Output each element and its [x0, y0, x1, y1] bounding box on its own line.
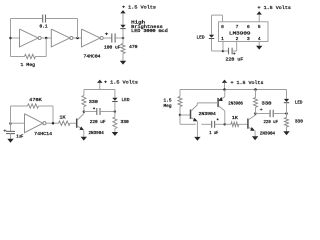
LED D4	[284, 99, 289, 102]
transistor Q1 collector diagonal	[77, 114, 84, 121]
svg-text:+ 1.5 Volts: + 1.5 Volts	[231, 80, 264, 86]
ground C4 Q1 emitter	[194, 137, 200, 141]
svg-text:220 uF: 220 uF	[90, 119, 106, 125]
wire C3 rail corner down to LED	[114, 90, 116, 98]
node C3 collector junction	[83, 110, 86, 113]
wire C1 bottom right segment	[36, 56, 47, 58]
svg-text:470: 470	[129, 44, 138, 50]
wire collector junction to 220uF	[84, 111, 97, 113]
transistor Q2 collector diagonal	[191, 105, 197, 111]
svg-text:1: 1	[221, 36, 224, 42]
wire 220uF to LED column C4	[273, 113, 286, 115]
svg-text:2N3904: 2N3904	[199, 111, 217, 117]
node C2 pin1 junction	[222, 50, 225, 53]
ground C3 LED	[112, 132, 118, 136]
transistor Q4 emitter diagonal	[248, 127, 253, 130]
capacitor 220 uF C3	[96, 108, 98, 115]
svg-text:2N3904: 2N3904	[260, 130, 276, 136]
wire 330 bottom to junction	[255, 107, 257, 113]
wire 1K to Q4 base	[239, 123, 248, 125]
svg-text:*: *	[216, 118, 219, 124]
svg-text:1K: 1K	[60, 115, 66, 121]
svg-text:+ 1.5 Volts: + 1.5 Volts	[258, 5, 292, 11]
node C1 junction A	[45, 37, 48, 40]
wire pin 8 top horizontal	[212, 14, 223, 16]
inverter U3 74HC14	[25, 114, 43, 133]
wire output node to 1K	[225, 123, 231, 125]
transistor Q2 emitter arrow	[193, 118, 198, 122]
svg-text:*: *	[93, 107, 96, 113]
svg-text:8: 8	[221, 24, 224, 30]
svg-text:5: 5	[258, 24, 261, 30]
svg-text:330: 330	[262, 101, 272, 107]
transistor Q2 2N3904 base bar	[190, 110, 192, 120]
wire C3 top rail	[84, 89, 115, 91]
wire LED bottom horizontal to junction	[212, 50, 224, 52]
svg-text:LED: LED	[197, 34, 205, 40]
wire C3 feedback right vertical	[52, 106, 54, 123]
wire inverter3 output	[103, 37, 111, 39]
transistor Q2 emitter diagonal	[191, 117, 196, 120]
wire base node to Q1 base	[180, 114, 191, 116]
svg-text:LED: LED	[295, 99, 303, 105]
svg-text:7: 7	[236, 24, 239, 30]
svg-text:1 Meg: 1 Meg	[21, 62, 36, 68]
op-amp U2 LM3909 IC box	[219, 22, 269, 42]
wire resistor 470 to ground	[122, 54, 124, 61]
node C4 rail 330 junction	[254, 88, 257, 91]
svg-text:330: 330	[89, 99, 98, 105]
wire C4 feedback horizontal left of crossing	[180, 123, 196, 125]
resistor 330 C4 collector	[254, 98, 258, 108]
power +1.5 Volts supply arrow C2	[257, 11, 262, 14]
inverter U1A 74HC04	[20, 29, 39, 47]
inverter U1C 74HC04	[82, 29, 101, 47]
wire pin 1 down	[222, 42, 224, 52]
transistor Q4 2N3904 base bar	[247, 119, 249, 129]
wire C3 feedback top right	[39, 105, 54, 107]
wire 330 to ground C3	[114, 129, 116, 133]
wire pin 8 up	[222, 15, 224, 22]
wire collector junction up to 330	[83, 107, 85, 112]
wire LED D2 cathode down	[211, 39, 213, 51]
power +1.5 Volts supply arrow C4	[222, 80, 227, 83]
LED D2	[209, 35, 214, 38]
transistor Q1 2N3904 base bar	[76, 119, 78, 128]
wire junction to capacitor 220uF	[223, 50, 229, 52]
svg-text:100 uF: 100 uF	[104, 45, 121, 51]
wire inverter U3 output	[46, 122, 59, 124]
svg-text:0.1: 0.1	[40, 24, 48, 30]
svg-text:470K: 470K	[29, 97, 42, 103]
wire C3 input node down to capacitor	[10, 124, 12, 132]
LED D3	[112, 98, 117, 101]
svg-text:Meg: Meg	[164, 103, 172, 109]
capacitor 1uF C3	[6, 130, 15, 132]
wire pin 4 down to ground	[258, 42, 260, 46]
wire 1uF to output node	[215, 123, 225, 125]
node C1 LED column junction	[122, 37, 125, 40]
wire C1 junction A down	[45, 38, 47, 57]
wire 100uF to LED column	[115, 37, 123, 39]
svg-text:220 uF: 220 uF	[264, 119, 279, 125]
node C1 input junction	[9, 37, 12, 40]
node C4 LED column junction	[285, 112, 288, 115]
node C4 output junction	[224, 123, 227, 126]
wire junction down to 330 C4	[286, 114, 288, 118]
resistor 470K	[28, 104, 39, 108]
wire Q4 emitter down	[254, 131, 256, 137]
resistor 1 Meg	[25, 54, 36, 58]
resistor 330 C3 collector	[82, 96, 86, 107]
wire LED D1 cathode down to junction	[122, 29, 124, 38]
wire C4 rail corner down to LED	[286, 90, 288, 99]
wire C1 input to inverter 1	[11, 37, 20, 39]
node C4 Q4 collector junction	[254, 112, 257, 115]
svg-text:2N3906: 2N3906	[228, 100, 243, 106]
svg-text:1 uF: 1 uF	[209, 130, 218, 136]
wire Q2 emitter down crossing	[196, 121, 198, 137]
svg-text:6: 6	[247, 24, 250, 30]
wire base node down	[179, 115, 181, 124]
svg-text:2N3904: 2N3904	[89, 130, 105, 136]
wire junction down to resistor 470	[122, 38, 124, 44]
wire C1 top feedback left segment	[11, 18, 43, 20]
capacitor 220 uF C4	[269, 110, 271, 117]
wire Q3 emitter from rail	[224, 90, 226, 97]
capacitor 1 uF C4	[211, 121, 213, 128]
wire C4 top rail	[180, 89, 287, 91]
ground C3 emitter	[81, 137, 87, 141]
wire C3 feedback top left	[11, 105, 28, 107]
wire 330 top to rail	[83, 90, 85, 96]
svg-text:4: 4	[258, 36, 261, 42]
wire 220uF to LED column	[100, 111, 115, 113]
wire C4 feedback horizontal right of crossing	[201, 123, 211, 125]
svg-text:1.5: 1.5	[164, 98, 172, 104]
resistor 330 C3 LED	[113, 117, 117, 129]
wire 1.5 Meg to base node	[179, 107, 181, 116]
svg-text:LED: LED	[122, 97, 130, 103]
svg-text:3: 3	[247, 36, 250, 42]
transistor Q1 emitter arrow	[80, 126, 84, 130]
capacitor 220 uF C2	[228, 48, 230, 55]
transistor Q4 collector diagonal	[248, 115, 255, 120]
wire C1 top feedback right segment	[46, 18, 78, 20]
ground C1	[120, 61, 126, 65]
svg-text:2: 2	[236, 36, 239, 42]
wire capacitor to pin 2	[232, 50, 237, 52]
resistor 330 C4 LED	[285, 118, 289, 128]
svg-text:330: 330	[295, 119, 303, 125]
wire 330 to ground C4 LED	[286, 127, 288, 131]
node C3 LED column junction	[114, 110, 117, 113]
svg-text:LM3909: LM3909	[229, 30, 251, 36]
ground C2	[256, 46, 262, 50]
wire C1 bottom left segment	[11, 56, 25, 58]
transistor Q3 collector diagonal	[219, 106, 225, 111]
transistor Q3 emitter arrow	[218, 97, 223, 101]
resistor 470	[121, 44, 125, 54]
svg-text:1K: 1K	[232, 115, 238, 121]
wire C1 junction B up to feedback	[77, 19, 79, 39]
ground C4 Q4 emitter	[252, 136, 258, 140]
ground C4 LED	[283, 131, 289, 135]
wire C3 feedback vertical	[10, 106, 12, 124]
wire rail corner down to 1.5 Meg	[179, 90, 181, 97]
node C3 output junction	[52, 122, 55, 125]
wire LED D4 cathode to junction	[286, 103, 288, 114]
transistor Q1 emitter diagonal	[77, 126, 82, 129]
svg-text:+ 1.5 Volts: + 1.5 Volts	[104, 80, 138, 86]
wire LED D2 anode vertical	[211, 15, 213, 35]
LED D1 high brightness	[120, 25, 125, 28]
svg-text:1uF: 1uF	[16, 134, 23, 140]
wire Q4 collector up to junction	[254, 114, 256, 116]
svg-text:+ 1.5 Volts: + 1.5 Volts	[122, 5, 156, 11]
ground C3 input	[7, 139, 13, 143]
svg-text:74HC14: 74HC14	[34, 131, 52, 137]
node C4 Q1 base junction	[179, 114, 182, 117]
wire inverter1 output	[41, 37, 51, 39]
wire Q1 emitter down	[83, 130, 85, 137]
wire C1 left vertical feedback	[10, 19, 12, 57]
wire capacitor 1uF to ground	[10, 134, 12, 139]
resistor 1.5 Meg	[178, 97, 182, 107]
node C3 input junction	[9, 122, 12, 125]
node C1 junction B	[76, 37, 79, 40]
svg-text:220 uF: 220 uF	[226, 57, 244, 63]
wire inverter2 output	[73, 37, 81, 39]
wire junction down to 330	[114, 112, 116, 118]
node C4 rail supply junction	[223, 88, 226, 91]
wire 330 top to rail C4	[255, 90, 257, 98]
svg-text:74HC04: 74HC04	[84, 54, 101, 60]
power +1.5 Volts supply arrow C1	[120, 10, 125, 13]
wire Q1 collector to Q3 base	[197, 102, 218, 104]
wire Q3 collector down to output node	[224, 111, 226, 124]
transistor Q3 2N3906 base bar	[217, 98, 219, 107]
capacitor 100 uF	[111, 33, 113, 42]
wire junction to 220uF C4	[255, 113, 270, 115]
svg-text:LED 3000 mcd: LED 3000 mcd	[131, 29, 168, 34]
wire Q1 collector up to junction	[83, 112, 85, 114]
transistor Q4 emitter arrow	[250, 127, 255, 131]
inverter U1B 74HC04	[51, 29, 70, 47]
power +1.5 Volts supply arrow C3	[97, 80, 102, 83]
wire Q2 collector up	[196, 103, 198, 105]
resistor 1K C3	[59, 121, 71, 125]
svg-text:330: 330	[121, 119, 130, 125]
wire pin 2 down	[236, 42, 238, 52]
wire LED D3 cathode to junction	[114, 102, 116, 112]
capacitor 0.1 uF	[42, 15, 44, 23]
transistor Q3 2N3906 emitter diagonal	[220, 97, 225, 100]
wire 1K to transistor base	[70, 122, 77, 124]
wire C3 input horizontal	[11, 122, 25, 124]
resistor 1K C4	[231, 122, 239, 126]
